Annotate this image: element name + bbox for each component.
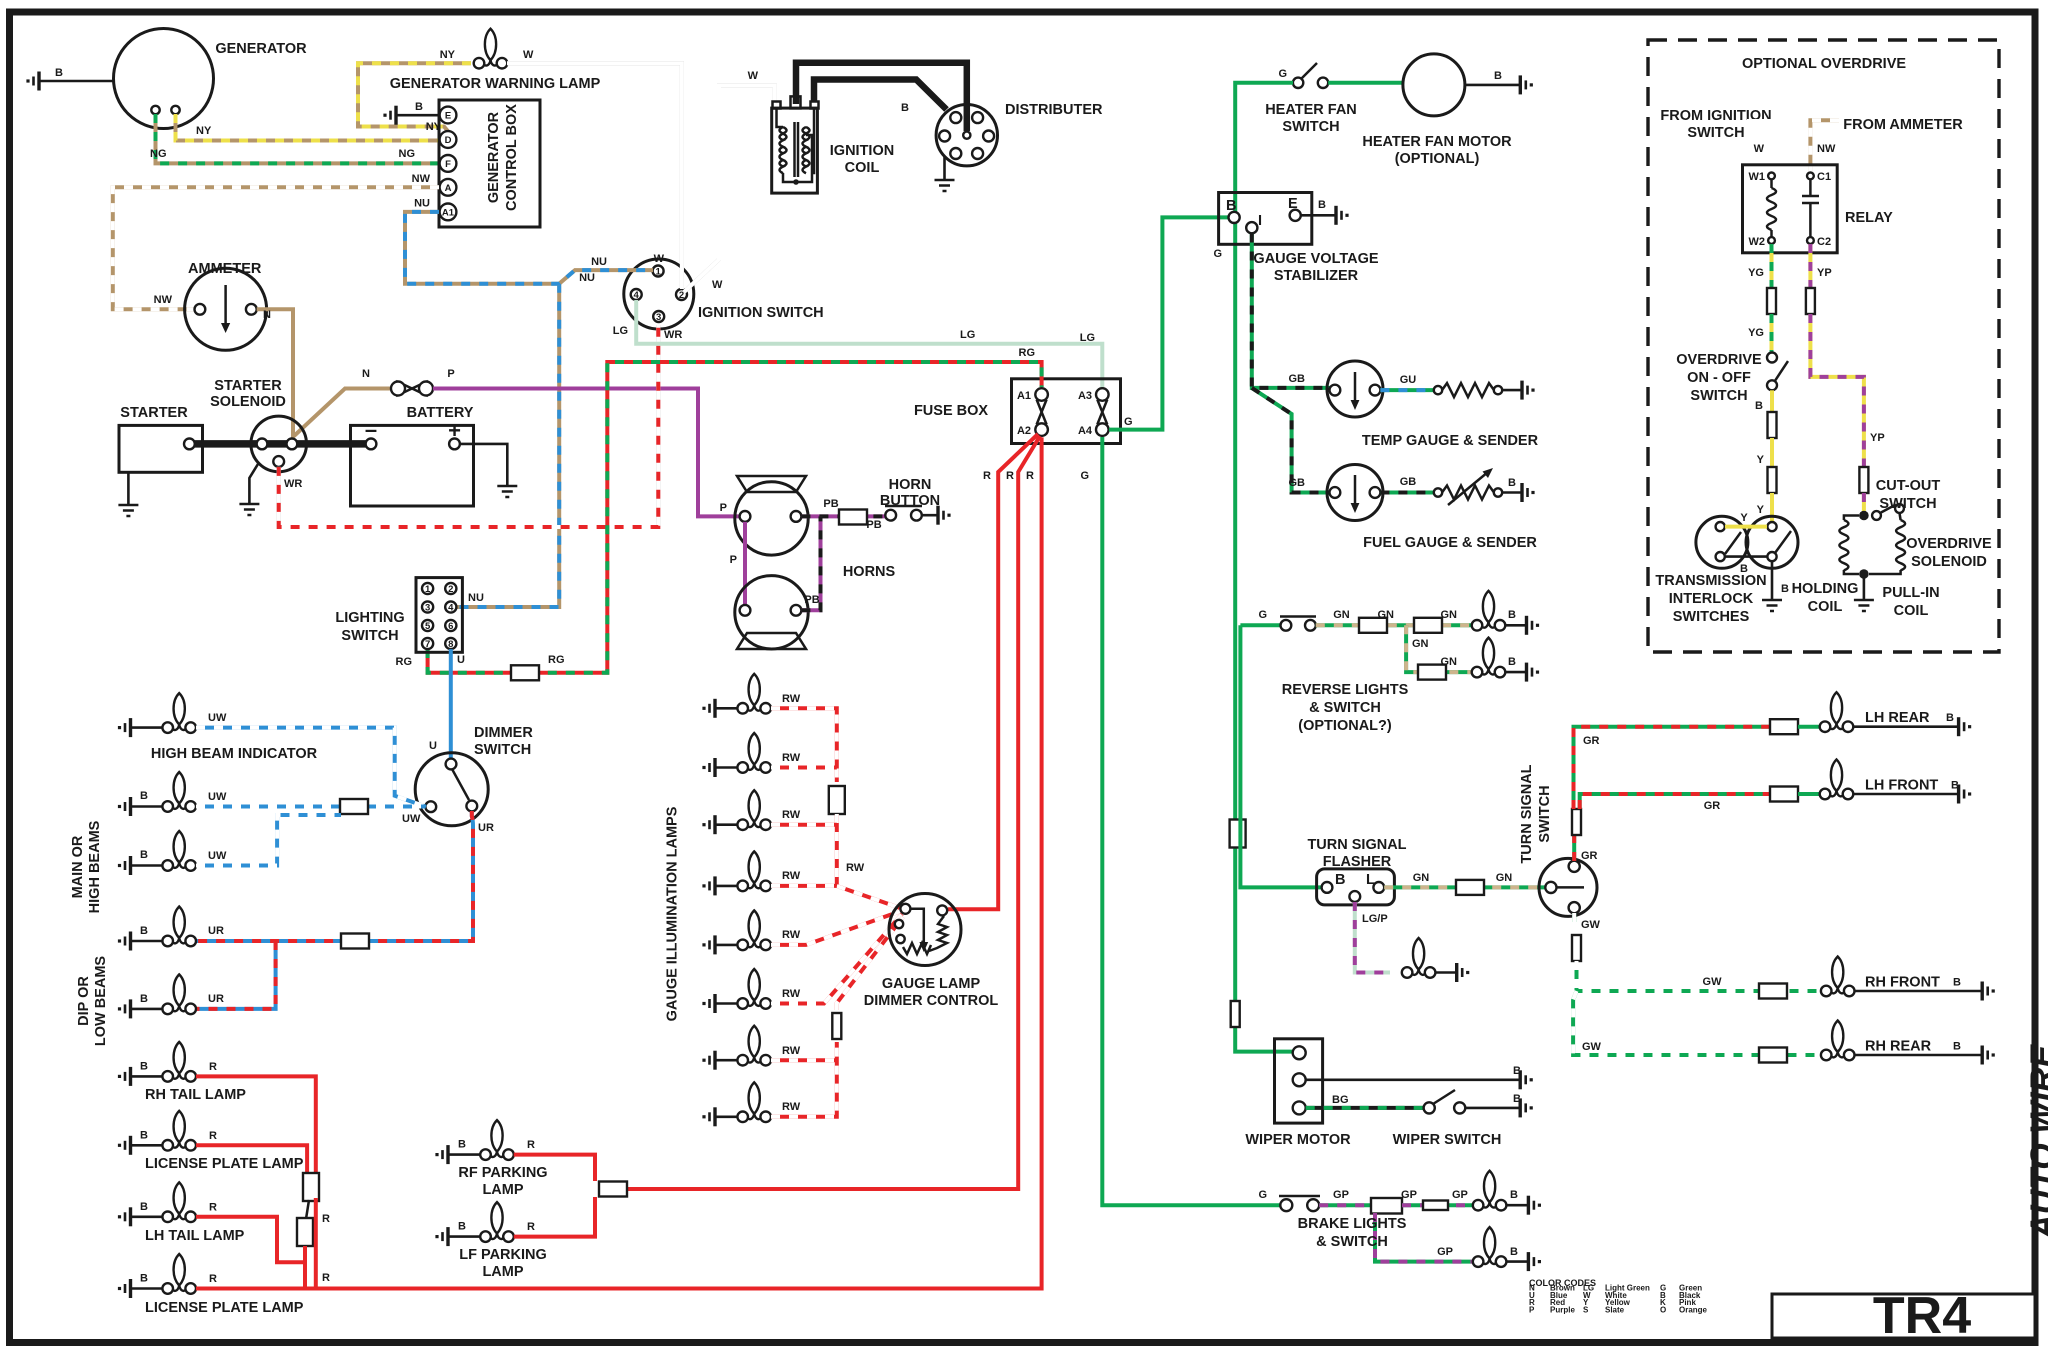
svg-text:B: B (901, 102, 909, 114)
ground (chassis) at generator B (26, 67, 113, 91)
dip low beams label (76, 956, 109, 1047)
connector on GW wire (1572, 935, 1581, 961)
wire UR dimmer to dip beam lamp 1 (196, 811, 494, 941)
wire RW lamp 4 (771, 884, 837, 888)
svg-text:GU: GU (1400, 374, 1417, 386)
wire R connector to tail trunk (316, 1198, 330, 1289)
connector YP lower (1859, 467, 1868, 493)
generator control box (439, 100, 540, 227)
wire P fusible link to horns (433, 368, 740, 516)
svg-text:LOW BEAMS: LOW BEAMS (93, 956, 109, 1047)
main beam lamp 2 (162, 831, 227, 871)
svg-text:G: G (1258, 609, 1267, 621)
svg-text:1: 1 (655, 266, 661, 277)
svg-text:2: 2 (448, 584, 453, 595)
ground at gauge lamp 8 (702, 1107, 737, 1126)
reverse light switch (1280, 617, 1316, 631)
svg-text:G: G (1124, 416, 1133, 428)
svg-text:B: B (140, 1273, 148, 1285)
ground at LH tail lamp (118, 1201, 163, 1227)
connector gauge lamps upper (829, 786, 845, 814)
svg-text:FUEL GAUGE & SENDER: FUEL GAUGE & SENDER (1363, 535, 1537, 551)
horn button (880, 477, 940, 521)
svg-text:YG: YG (1748, 267, 1764, 279)
svg-text:SWITCH: SWITCH (1537, 785, 1553, 842)
ground at license plate lamp 1 (118, 1129, 163, 1155)
svg-text:OVERDRIVE: OVERDRIVE (1676, 352, 1762, 368)
thick lead coil terminal to distributor B (814, 80, 947, 115)
main high beams label (70, 820, 103, 913)
wire GW down to RH REAR lamp (1573, 991, 1821, 1055)
wire G trunk to reverse light switch (1240, 609, 1281, 625)
svg-text:SOLENOID: SOLENOID (210, 394, 286, 410)
heater fan switch (1265, 63, 1357, 135)
svg-text:5: 5 (425, 621, 431, 632)
wire RW lamp 3 (771, 823, 837, 827)
connector on GR wire (1572, 809, 1581, 835)
svg-text:LH TAIL LAMP: LH TAIL LAMP (145, 1228, 245, 1244)
brake lights label (1298, 1216, 1407, 1250)
ammeter (185, 261, 267, 350)
RH FRONT lamp (1821, 957, 1961, 997)
svg-text:NW: NW (1817, 143, 1836, 155)
svg-text:AMMETER: AMMETER (188, 261, 262, 277)
svg-text:WR: WR (664, 329, 682, 341)
gauge illumination lamp 8 (737, 1082, 800, 1122)
svg-text:A: A (445, 183, 452, 194)
svg-text:B: B (1318, 199, 1326, 211)
svg-text:NY: NY (440, 49, 456, 61)
connector LH FRONT (1770, 787, 1798, 802)
generator (114, 29, 308, 129)
ground at interlock switches (1762, 561, 1789, 611)
wire GB fuel gauge to sender (1380, 476, 1436, 493)
svg-text:RG: RG (396, 656, 413, 668)
ground at gauge lamp 3 (702, 815, 737, 834)
wire W warning lamp to ignition switch terminal 2 (507, 49, 682, 289)
svg-text:LF PARKING: LF PARKING (459, 1247, 547, 1263)
svg-text:LG: LG (960, 329, 975, 341)
svg-text:HORN: HORN (889, 477, 932, 493)
svg-text:A4: A4 (1078, 425, 1093, 437)
svg-text:R: R (322, 1272, 330, 1284)
svg-text:OPTIONAL OVERDRIVE: OPTIONAL OVERDRIVE (1742, 56, 1906, 72)
turn signal flasher label (1307, 837, 1406, 870)
svg-text:B: B (1510, 1246, 1518, 1258)
wire Y between connectors (1757, 438, 1772, 468)
wire GN branch down to reverse lamp 2 (1406, 625, 1472, 672)
svg-text:R: R (209, 1202, 217, 1214)
svg-text:RW: RW (782, 929, 801, 941)
svg-text:NY: NY (196, 125, 212, 137)
svg-text:3: 3 (425, 602, 430, 613)
ground at heater fan motor (1465, 70, 1533, 94)
svg-text:B: B (1513, 1065, 1521, 1077)
wire RW lamp 1 (771, 708, 837, 782)
svg-text:UW: UW (208, 850, 227, 862)
reverse lamp 2 (1472, 638, 1516, 678)
svg-text:INTERLOCK: INTERLOCK (1669, 591, 1754, 607)
svg-text:R: R (527, 1139, 535, 1151)
ground at horn button (922, 506, 951, 525)
svg-text:B: B (1226, 198, 1236, 214)
svg-text:TURN SIGNAL: TURN SIGNAL (1307, 837, 1406, 853)
wire LG ignition switch terminal 4 to fuse A3 (613, 300, 1103, 390)
svg-text:I: I (1258, 213, 1262, 229)
turn signal flasher (1317, 869, 1395, 905)
svg-text:NU: NU (414, 198, 430, 210)
svg-text:GENERATOR WARNING LAMP: GENERATOR WARNING LAMP (390, 76, 601, 92)
wire R RH tail lamp to connector (196, 1076, 316, 1176)
fuse A1-A2 (1017, 388, 1048, 437)
wire YP connector to solenoid junction (1862, 493, 1866, 512)
svg-text:LICENSE PLATE LAMP: LICENSE PLATE LAMP (145, 1300, 304, 1316)
wire RW lamp 2 (771, 766, 837, 770)
svg-text:TURN SIGNAL: TURN SIGNAL (1519, 764, 1535, 863)
svg-text:GR: GR (1581, 850, 1598, 862)
connector RH REAR (1759, 1048, 1787, 1063)
wire GP brake switch to connector (1319, 1189, 1371, 1205)
wire PB horn1 to horn button (801, 498, 886, 531)
svg-text:DIMMER: DIMMER (474, 725, 533, 741)
svg-text:SWITCHES: SWITCHES (1673, 609, 1750, 625)
wire GR connector to LH FRONT lamp (1798, 792, 1820, 796)
connector reverse wire 3 (1418, 665, 1446, 680)
svg-text:R: R (209, 1061, 217, 1073)
svg-text:COIL: COIL (845, 160, 880, 176)
svg-text:W: W (748, 70, 759, 82)
svg-text:RF PARKING: RF PARKING (458, 1165, 547, 1181)
svg-text:STARTER: STARTER (120, 405, 188, 421)
svg-text:BG: BG (1332, 1094, 1349, 1106)
svg-text:RW: RW (782, 752, 801, 764)
svg-text:PB: PB (804, 594, 819, 606)
svg-text:SWITCH: SWITCH (1282, 119, 1339, 135)
svg-text:GB: GB (1289, 477, 1306, 489)
svg-text:L: L (1366, 872, 1375, 888)
starter solenoid (210, 378, 306, 472)
svg-text:OVERDRIVE: OVERDRIVE (1906, 536, 1992, 552)
wire R license plate lamp 2 joins trunk (196, 1287, 316, 1291)
license plate lamp 2 (145, 1254, 304, 1316)
wire G trunk stabilizer B down to wiper motor (1235, 222, 1293, 1052)
wire P horn1 to horn2 (730, 522, 745, 605)
connector LH REAR (1770, 719, 1798, 734)
svg-text:W2: W2 (1749, 236, 1766, 248)
ground (chassis) at control box E (383, 101, 439, 125)
vertical text at right edge (2024, 1044, 2048, 1240)
svg-text:LH REAR: LH REAR (1865, 710, 1930, 726)
from ammeter label (1843, 117, 1963, 133)
svg-text:AUTO WIRE: AUTO WIRE (2024, 1044, 2048, 1240)
wire G feed reverse branch down to turn signal flasher B (1240, 625, 1322, 887)
pull-in coil label (1882, 585, 1939, 619)
svg-text:A3: A3 (1078, 390, 1092, 402)
wire R fuse A2 to tail lamp feed (316, 437, 1042, 1288)
battery (351, 405, 474, 506)
wire BG wiper motor to wiper switch (1306, 1094, 1424, 1108)
wire NU junction down to lighting switch terminal 4 (456, 284, 559, 607)
svg-text:B: B (1740, 563, 1748, 575)
svg-text:B: B (140, 1129, 148, 1141)
connector reverse wire 1 (1359, 618, 1387, 633)
ground at gauge lamp 5 (702, 935, 737, 954)
svg-text:RH FRONT: RH FRONT (1865, 975, 1940, 991)
svg-text:R: R (983, 470, 991, 482)
svg-text:RW: RW (846, 862, 865, 874)
gauge illumination lamp 1 (737, 674, 800, 714)
main beam lamp 1 (162, 772, 227, 812)
svg-text:UW: UW (402, 813, 421, 825)
ground at main beam lamp 1 (118, 790, 163, 816)
svg-text:P: P (720, 502, 727, 514)
wire NU control box A1 to junction and ignition switch terminal 1 (405, 198, 653, 285)
svg-text:GN: GN (1333, 609, 1350, 621)
svg-text:COIL: COIL (1808, 599, 1843, 615)
fusible link (in-line fuse) (391, 381, 433, 396)
connector RH FRONT (1759, 984, 1787, 999)
wire GB branch to fuel gauge (1252, 388, 1330, 493)
svg-text:B: B (415, 101, 423, 113)
svg-text:Y: Y (1740, 512, 1748, 524)
svg-text:FROM AMMETER: FROM AMMETER (1843, 117, 1963, 133)
gauge lamp dimmer control (864, 894, 999, 1010)
wire RW lamps 7-8 trunk to dimmer control (771, 917, 903, 1117)
svg-text:TEMP GAUGE & SENDER: TEMP GAUGE & SENDER (1362, 433, 1539, 449)
connector brake lights (1371, 1198, 1402, 1214)
svg-text:B: B (140, 1201, 148, 1213)
svg-text:W: W (712, 279, 723, 291)
svg-text:RH REAR: RH REAR (1865, 1039, 1932, 1055)
heater fan motor (1362, 54, 1512, 167)
ground at license plate lamp 2 (118, 1273, 163, 1299)
temp sender resistor (1434, 383, 1502, 397)
svg-text:NU: NU (591, 256, 607, 268)
ground at brake lamp 1 (1507, 1196, 1542, 1215)
svg-text:R: R (1006, 470, 1014, 482)
distributor (936, 102, 1103, 166)
temp gauge (1327, 361, 1539, 449)
title block TR4 (1772, 1287, 2035, 1345)
gauge illumination lamp 6 (737, 969, 800, 1009)
ground at RH tail lamp (118, 1060, 163, 1086)
cut-out switch (1859, 478, 1940, 520)
ground at RH FRONT lamp (1855, 982, 1995, 1001)
ground at gauge lamp 7 (702, 1051, 737, 1070)
ground at LH REAR lamp (1853, 717, 1971, 736)
connector Y lower (1768, 467, 1777, 493)
svg-text:& SWITCH: & SWITCH (1316, 1234, 1388, 1250)
ground at starter (118, 472, 138, 516)
svg-text:G: G (1258, 1189, 1267, 1201)
svg-text:1: 1 (425, 584, 431, 595)
overdrive on-off switch (1676, 352, 1788, 412)
ground at overdrive solenoid (1854, 578, 1874, 611)
holding coil label (1792, 581, 1859, 615)
wire YG to overdrive switch (1748, 314, 1771, 353)
svg-text:LG: LG (1080, 332, 1095, 344)
svg-text:YG: YG (1748, 327, 1764, 339)
svg-text:SOLENOID: SOLENOID (1911, 554, 1987, 570)
svg-text:(OPTIONAL?): (OPTIONAL?) (1298, 718, 1392, 734)
ground at gauge lamp 2 (702, 758, 737, 777)
svg-text:LAMP: LAMP (482, 1182, 523, 1198)
turn signal switch label (1519, 764, 1553, 863)
svg-text:N: N (263, 309, 271, 321)
svg-text:DIMMER CONTROL: DIMMER CONTROL (864, 993, 999, 1009)
svg-text:P: P (1529, 1305, 1535, 1314)
LH tail lamp (145, 1182, 245, 1244)
solenoid terminals (257, 439, 298, 467)
gauge illumination lamp 4 (737, 851, 800, 891)
svg-text:RW: RW (782, 870, 801, 882)
svg-text:GB: GB (1289, 373, 1306, 385)
svg-text:R: R (1026, 470, 1034, 482)
wire Y to interlock switch (1757, 493, 1772, 522)
svg-text:RW: RW (782, 1101, 801, 1113)
RH tail lamp (145, 1042, 246, 1103)
svg-text:RW: RW (782, 1045, 801, 1057)
wiper motor (1245, 1039, 1351, 1148)
ground at dip beam lamp 1 (118, 925, 163, 951)
wire YP relay C2 down (1810, 244, 1831, 290)
svg-text:& SWITCH: & SWITCH (1309, 700, 1381, 716)
gauge illumination lamp 2 (737, 733, 800, 773)
svg-text:B: B (1508, 609, 1516, 621)
ground at wiper motor middle terminal (1306, 1065, 1533, 1089)
connector in main beam wire (340, 799, 368, 814)
horn 1 (720, 476, 809, 555)
svg-text:NW: NW (412, 173, 431, 185)
connector on green trunk upper (1230, 820, 1246, 848)
svg-text:8: 8 (448, 639, 453, 650)
svg-text:NU: NU (579, 272, 595, 284)
wire R LF parking lamp to connector (514, 1197, 595, 1237)
svg-text:B: B (1494, 70, 1502, 82)
svg-text:DIP OR: DIP OR (76, 976, 92, 1026)
svg-text:RG: RG (548, 654, 565, 666)
svg-text:A1: A1 (1017, 390, 1031, 402)
wire GR connector to LH REAR lamp terminals (1798, 725, 1820, 729)
svg-text:GN: GN (1412, 638, 1429, 650)
gauge illumination lamp 7 (737, 1026, 800, 1066)
ground at LF parking lamp (435, 1221, 480, 1247)
connector flasher to switch (1456, 880, 1484, 895)
svg-text:GW: GW (1581, 919, 1601, 931)
brake lamp 1 (1473, 1171, 1518, 1211)
svg-text:W: W (654, 253, 665, 265)
inline connector brake lamp 1 (1423, 1201, 1448, 1211)
wire R LH tail lamp to connector lower (196, 1217, 305, 1263)
thick cable starter to solenoid to battery (192, 440, 368, 448)
svg-text:B: B (1781, 583, 1789, 595)
svg-text:LH FRONT: LH FRONT (1865, 778, 1938, 794)
svg-text:SWITCH: SWITCH (474, 742, 531, 758)
connector tail lamp harness upper (303, 1173, 319, 1201)
wire RW lamp 6 to dimmer control (771, 914, 902, 1004)
svg-text:HEATER FAN: HEATER FAN (1265, 102, 1357, 118)
horn 2 (735, 564, 896, 649)
optional overdrive dashed box (1648, 40, 1999, 652)
wire GR to LH REAR lamp (1574, 727, 1771, 809)
svg-text:B: B (458, 1221, 466, 1233)
svg-text:W1: W1 (1749, 171, 1766, 183)
RH REAR lamp (1821, 1021, 1961, 1061)
ground at RH REAR lamp (1855, 1046, 1995, 1065)
wire UW main beam lamp 1 to dimmer (196, 805, 425, 809)
ground at gauge lamp 1 (702, 699, 737, 718)
svg-text:GP: GP (1401, 1189, 1417, 1201)
ground at stabilizer E (1301, 199, 1349, 225)
svg-text:GAUGE VOLTAGE: GAUGE VOLTAGE (1253, 251, 1378, 267)
relay (1743, 165, 1894, 253)
svg-text:GAUGE LAMP: GAUGE LAMP (882, 976, 981, 992)
svg-text:4: 4 (634, 290, 640, 301)
wire N ammeter to starter solenoid (257, 309, 293, 440)
wire UW high beam indicator to dimmer (196, 712, 426, 825)
svg-text:2: 2 (679, 290, 684, 301)
wire G trunk top to heater fan switch (1235, 83, 1293, 215)
svg-text:PB: PB (866, 519, 881, 531)
ignition coil (772, 96, 895, 193)
svg-text:GB: GB (1400, 476, 1417, 488)
svg-text:GP: GP (1437, 1246, 1453, 1258)
wire RW gauge lamp trunk to dimmer control (837, 814, 900, 908)
svg-text:F: F (445, 159, 451, 170)
svg-text:B: B (140, 925, 148, 937)
svg-text:P: P (447, 368, 454, 380)
wire GU temp gauge to sender (1380, 374, 1436, 390)
svg-text:B: B (1953, 977, 1961, 989)
wiper switch (1393, 1090, 1502, 1148)
svg-text:GW: GW (1703, 976, 1723, 988)
svg-text:HOLDING: HOLDING (1792, 581, 1859, 597)
wire UW main beam lamp 2 to junction (196, 815, 341, 866)
connector in dip beam wire (341, 934, 369, 949)
reverse lamp 1 (1472, 591, 1516, 631)
svg-text:UW: UW (208, 791, 227, 803)
svg-text:N: N (362, 368, 370, 380)
fuel sender variable resistor (1434, 468, 1502, 505)
connector in horn button wire (839, 510, 867, 525)
wire W ignition switch terminal 2 to ignition coil (684, 70, 775, 292)
svg-text:LIGHTING: LIGHTING (335, 610, 404, 626)
svg-text:YP: YP (1870, 432, 1885, 444)
svg-text:4: 4 (448, 602, 454, 613)
wire GP connector to brake lamp 1 (1401, 1189, 1473, 1205)
wire GP connector down to brake lamp 2 (1375, 1213, 1473, 1262)
wire LG/P flasher to pilot lamp (1355, 902, 1390, 973)
svg-text:C1: C1 (1817, 171, 1831, 183)
color codes table (1529, 1278, 1708, 1314)
reverse lights label (1282, 682, 1409, 734)
turn signal switch (1539, 858, 1597, 916)
wire G fuse A4 to voltage stabilizer B (1109, 217, 1230, 429)
wire G heater fan switch to motor (1328, 81, 1403, 85)
svg-text:BUTTON: BUTTON (880, 493, 940, 509)
svg-text:U: U (429, 740, 437, 752)
svg-text:C2: C2 (1817, 236, 1831, 248)
svg-text:E: E (445, 111, 451, 122)
gauge illumination lamp 5 (737, 910, 800, 950)
svg-text:B: B (140, 993, 148, 1005)
dip beam lamp 2 (162, 974, 196, 1014)
link between connectors (306, 1200, 309, 1219)
wire R RF parking lamp to connector (514, 1155, 595, 1181)
svg-text:Orange: Orange (1679, 1305, 1708, 1314)
svg-text:UR: UR (478, 822, 494, 834)
svg-text:B: B (458, 1139, 466, 1151)
